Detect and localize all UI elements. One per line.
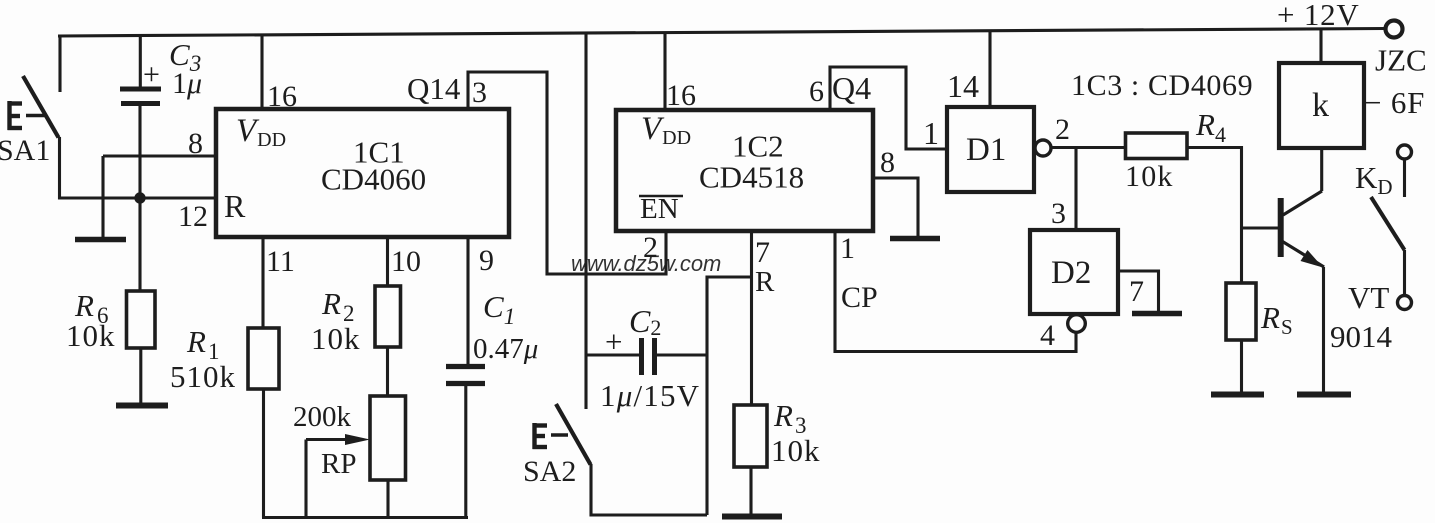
terminal +12V circle — [1386, 21, 1403, 38]
wire C2 right lead — [656, 353, 707, 356]
resistor R6 — [127, 291, 156, 348]
wire IC2 pin1 CP to D2 pin4 — [835, 231, 1076, 352]
svg-text:1C2: 1C2 — [732, 129, 784, 164]
ground (R6) — [116, 403, 168, 409]
wire D1 output to R4 — [1051, 146, 1126, 149]
ground (RS) — [1211, 392, 1264, 398]
capacitor C3 plates — [120, 89, 161, 104]
wire Q4 loop IC2 pin6 to D1 pin1 — [830, 67, 947, 149]
svg-text:EN: EN — [640, 193, 679, 225]
svg-text:Q14: Q14 — [407, 71, 461, 106]
wire collector to relay — [1320, 148, 1323, 191]
ground (R3) — [722, 514, 782, 520]
svg-text:4: 4 — [1040, 319, 1055, 352]
svg-text:R: R — [224, 188, 246, 224]
svg-text:2: 2 — [1055, 113, 1070, 146]
svg-text:SA1: SA1 — [0, 134, 50, 167]
wire pin12 horizontal (node to IC1 R) — [58, 196, 216, 199]
svg-text:D1: D1 — [966, 132, 1006, 168]
wire C3 bottom to junction — [138, 106, 141, 198]
wire IC1 pin 11 to R1 — [261, 237, 264, 328]
svg-text:3: 3 — [472, 76, 487, 109]
wire D2 pin7 to ground — [1118, 271, 1159, 311]
capacitor C2 plates — [642, 338, 655, 375]
wire RP bottom — [386, 480, 389, 518]
resistor R4 — [1126, 133, 1188, 159]
wire junction to D2 pin3 — [1074, 148, 1077, 231]
relay K coil box — [1279, 63, 1364, 148]
op-amp U2 IC2 CD4518 box — [616, 110, 873, 231]
switch SA2 actuator E symbol — [533, 423, 569, 449]
wire riser to R pin jog — [707, 277, 752, 515]
wire base tap — [1242, 226, 1279, 229]
ground (D2 pin 7) — [1132, 311, 1182, 317]
svg-text:7: 7 — [755, 236, 770, 269]
wire R4 to base corner — [1187, 148, 1242, 284]
svg-text:− 6F: − 6F — [1364, 85, 1425, 120]
wire C1 bottom — [464, 386, 467, 518]
svg-text:+: + — [605, 324, 622, 359]
wire rail drop to C3 — [139, 36, 142, 89]
wire SA1 bottom to node — [58, 137, 61, 199]
junction node dot — [134, 192, 145, 203]
wire KD lower stub — [1403, 250, 1406, 295]
svg-text:10k: 10k — [1125, 160, 1174, 193]
svg-text:1: 1 — [840, 232, 855, 265]
svg-text:10k: 10k — [771, 433, 821, 468]
inverter D2 input bubble pin4 — [1068, 315, 1086, 333]
ground (pin 8 reset line) — [75, 237, 126, 243]
svg-text:16: 16 — [267, 80, 297, 113]
svg-text:200k: 200k — [293, 401, 352, 433]
wire R2 bottom to RP — [386, 347, 389, 396]
wire Q14 pin3 loop to IC2 pin2 — [468, 72, 666, 274]
switch SA1 actuator E symbol — [8, 101, 46, 130]
svg-text:1C3 : CD4069: 1C3 : CD4069 — [1071, 69, 1253, 102]
wire R1 bottom to rail — [262, 389, 265, 518]
svg-text:9014: 9014 — [1330, 319, 1393, 354]
op-amp U1 IC1 CD4060 box — [216, 109, 509, 237]
contact KD bottom terminal — [1398, 296, 1412, 310]
svg-text:16: 16 — [666, 79, 696, 112]
wire +12V top rail — [58, 29, 1385, 37]
resistor R2 — [375, 286, 401, 347]
resistor RS — [1226, 283, 1256, 340]
wire bottom rail left — [262, 516, 468, 519]
svg-text:10k: 10k — [311, 321, 361, 356]
svg-text:6: 6 — [809, 75, 824, 108]
svg-text:SA2: SA2 — [523, 455, 576, 488]
wire IC1 pin 9 to C1 — [466, 237, 469, 365]
wire R6 bottom — [139, 348, 142, 403]
svg-text:11: 11 — [266, 245, 295, 278]
wire emitter down — [1322, 267, 1325, 392]
svg-text:D2: D2 — [1051, 255, 1091, 291]
wire C2 left lead — [586, 353, 640, 356]
transistor VT base bar — [1278, 198, 1284, 257]
wire junction down to R6 — [138, 198, 141, 291]
svg-text:7: 7 — [1129, 275, 1144, 308]
wire R3 bottom — [749, 467, 752, 514]
wire rail drop to IC1 pin 16 — [260, 35, 263, 109]
wire rail drop to SA1 top contact — [58, 36, 61, 92]
wire IC2 pin7 vertical — [750, 231, 753, 405]
transistor VT emitter with arrow — [1283, 242, 1325, 268]
svg-text:8: 8 — [188, 127, 203, 160]
svg-text:14: 14 — [947, 68, 979, 104]
ground (IC2 pin 8) — [890, 236, 940, 242]
svg-text:1μ/15V: 1μ/15V — [600, 378, 700, 413]
svg-text:10: 10 — [391, 245, 421, 278]
svg-text:CD4518: CD4518 — [699, 160, 804, 195]
wire KD top stub — [1403, 160, 1406, 198]
wire pin8 drop to ground — [101, 156, 104, 237]
potentiometer RP body — [370, 396, 406, 480]
wire RS bottom — [1240, 340, 1243, 392]
svg-text:3: 3 — [1051, 197, 1066, 230]
wire SA2 bottom — [591, 464, 707, 515]
svg-text:CP: CP — [841, 281, 878, 314]
svg-text:+: + — [143, 58, 160, 91]
svg-text:Q4: Q4 — [832, 70, 871, 106]
potentiometer RP wiper arrow — [306, 438, 350, 441]
svg-text:CD4060: CD4060 — [321, 162, 426, 197]
wire IC1 pin 10 to R2 — [386, 237, 389, 286]
svg-text:9: 9 — [479, 244, 494, 277]
wire rail drop x586 to SA2 / C2 — [584, 33, 587, 409]
svg-text:R: R — [755, 266, 775, 298]
svg-text:10k: 10k — [66, 318, 116, 353]
resistor R3 — [734, 405, 767, 467]
contact KD top terminal — [1398, 145, 1412, 159]
wire pin8 horizontal — [103, 154, 216, 157]
svg-text:8: 8 — [880, 146, 895, 179]
transistor VT collector — [1283, 191, 1322, 215]
svg-text:0.47μ: 0.47μ — [473, 333, 538, 365]
svg-text:+ 12V: + 12V — [1277, 0, 1360, 32]
svg-text:12: 12 — [178, 200, 208, 233]
svg-text:510k: 510k — [170, 359, 236, 394]
svg-text:k: k — [1312, 87, 1329, 124]
inverter D1 box — [947, 107, 1034, 192]
ground (emitter) — [1297, 392, 1351, 398]
wire rail drop to IC2 pin 16 — [663, 34, 666, 111]
inverter D1 output bubble — [1035, 140, 1051, 156]
svg-text:JZC: JZC — [1375, 43, 1427, 78]
svg-text:RP: RP — [321, 448, 356, 480]
svg-text:VT: VT — [1348, 280, 1389, 315]
wire rail to relay top — [1319, 29, 1322, 63]
svg-text:1: 1 — [923, 115, 939, 151]
capacitor C1 plates — [446, 367, 485, 384]
wire rail drop to D1 pin 14 — [988, 31, 991, 107]
wire IC2 pin8 to ground — [873, 178, 918, 236]
wire RP wiper drop — [304, 440, 307, 518]
contact KD blade — [1371, 197, 1405, 250]
switch SA2 blade — [556, 404, 591, 465]
inverter D2 box — [1030, 230, 1118, 314]
svg-text:1μ: 1μ — [172, 67, 202, 100]
resistor R1 — [248, 328, 279, 389]
switch SA1 blade — [23, 76, 59, 138]
svg-text:www.dz5w.com: www.dz5w.com — [571, 251, 721, 276]
